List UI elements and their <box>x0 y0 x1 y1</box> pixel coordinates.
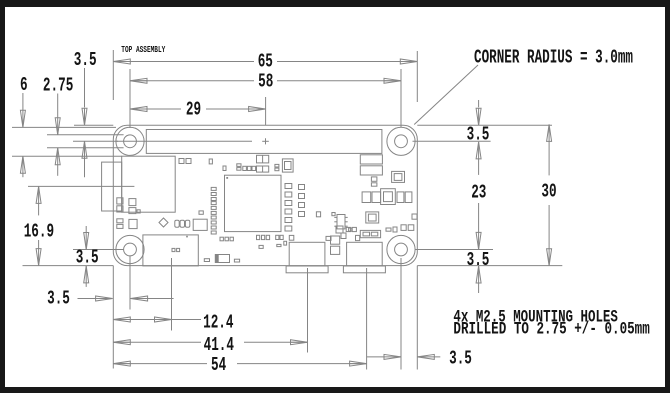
components right block <box>341 155 417 239</box>
micro USB J11 (PWR IN) <box>343 242 385 272</box>
dimension 58 <box>130 71 401 93</box>
label TOP ASSEMBLY <box>121 45 165 55</box>
dimension 41.4 <box>113 334 307 356</box>
svg-text:3.5: 3.5 <box>467 249 490 271</box>
ref line SD top (6) <box>12 155 122 157</box>
extension line board-right (65) <box>416 51 418 102</box>
ref line board top-left ext <box>74 124 113 126</box>
label CORNER RADIUS <box>474 46 633 68</box>
svg-text:12.4: 12.4 <box>203 312 233 334</box>
components between USB connectors <box>331 226 398 254</box>
ref line hole bottom (2.75) <box>47 147 124 149</box>
dimension 3.5 right-bottom <box>465 249 492 293</box>
micro USB J10 (USB) <box>286 242 328 272</box>
extension board-left-edge down <box>112 266 114 369</box>
extension line board-center (29) <box>265 97 267 125</box>
mounting hole bottom-left <box>116 235 144 263</box>
extension line hole-center-right (58) <box>400 69 402 127</box>
passives below SoC <box>172 235 331 262</box>
dimension 3.5 bottom-right <box>367 348 472 370</box>
SD slot center line <box>28 185 134 187</box>
ref line hole center left <box>73 140 118 142</box>
svg-text:54: 54 <box>211 354 226 376</box>
svg-text:3.5: 3.5 <box>76 247 99 269</box>
dimension 2.75 <box>43 75 73 176</box>
extension line hole-center-left (58/29) <box>129 69 131 128</box>
ref line board bottom-right ext <box>417 265 562 267</box>
dimension 3.5 bottom leader (edge to hole center) <box>47 288 174 310</box>
capacitor columns right of SoC <box>285 184 321 241</box>
svg-text:41.4: 41.4 <box>204 334 234 356</box>
extension board-right-edge down <box>416 266 418 370</box>
svg-text:DRILLED TO 2.75 +/- 0.05mm: DRILLED TO 2.75 +/- 0.05mm <box>453 319 649 339</box>
ref line hole top (2.75) <box>47 134 124 136</box>
dimension 3.5 top-left <box>74 49 97 177</box>
ref line board bottom-left ext <box>23 265 114 267</box>
dimension 6 <box>20 74 28 177</box>
svg-text:3.5: 3.5 <box>467 123 490 145</box>
SoC U1 <box>225 175 282 231</box>
datum cross + <box>262 138 269 144</box>
svg-text:3.5: 3.5 <box>74 49 97 71</box>
dimension 54 <box>113 354 366 376</box>
svg-text:3.5: 3.5 <box>47 288 70 310</box>
ref line board top-right ext <box>417 124 552 126</box>
dimension 16.9 <box>24 186 54 265</box>
dimension 30 <box>541 124 556 265</box>
mounting hole top-left <box>116 127 144 155</box>
svg-text:16.9: 16.9 <box>24 221 54 243</box>
extension HDMI center down <box>171 258 173 331</box>
dimension 65 <box>113 51 417 73</box>
svg-text:3.5: 3.5 <box>449 348 472 370</box>
svg-text:6: 6 <box>20 74 28 96</box>
ref line hole-center BR right <box>415 249 493 251</box>
svg-text:TOP ASSEMBLY: TOP ASSEMBLY <box>121 45 165 55</box>
dimension 29 <box>130 99 266 121</box>
corner radius leader line <box>414 65 478 125</box>
svg-text:30: 30 <box>541 181 556 203</box>
mounting hole top-right <box>387 127 415 155</box>
small IC right-middle <box>332 213 352 232</box>
ref line hole center bottom-left <box>73 249 124 251</box>
dimension 23 <box>471 182 486 250</box>
dimension 3.5 right-top <box>466 100 491 175</box>
dimension 3.5 left-bottom (hole to edge) <box>74 226 100 287</box>
board outline <box>113 125 417 265</box>
label mounting holes note <box>453 307 649 339</box>
svg-text:CORNER RADIUS = 3.0mm: CORNER RADIUS = 3.0mm <box>474 46 633 68</box>
svg-text:58: 58 <box>258 71 273 93</box>
capacitor column left of SoC <box>199 187 216 234</box>
ref line pad top tangent <box>12 126 116 128</box>
svg-text:29: 29 <box>186 99 201 121</box>
extension USB center down <box>307 268 309 353</box>
extension hole-center BL down <box>129 256 131 310</box>
passives cluster left of SoC <box>117 159 207 231</box>
extension line board-left (65) <box>112 50 114 100</box>
extension PWR center down <box>366 268 368 370</box>
components above SoC <box>209 155 293 172</box>
micro SD card slot <box>102 156 176 212</box>
mounting hole bottom-right <box>387 235 415 263</box>
svg-text:65: 65 <box>258 51 273 73</box>
svg-text:23: 23 <box>471 182 486 204</box>
GPIO header J8 <box>146 130 382 154</box>
mini HDMI connector J7 <box>143 235 198 266</box>
ref line hole-center TR right <box>413 140 491 142</box>
board center line to datum cross <box>116 140 252 142</box>
dimension 12.4 <box>113 312 244 334</box>
extension hole-center BR down <box>400 258 402 370</box>
svg-text:2.75: 2.75 <box>43 75 73 97</box>
